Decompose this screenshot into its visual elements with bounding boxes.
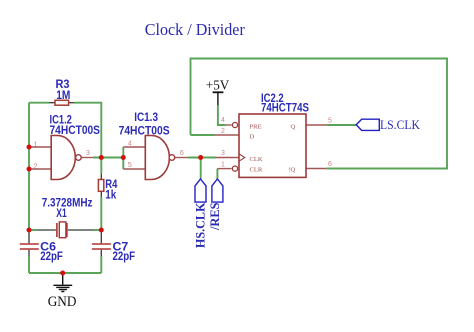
node crystal left junction <box>27 228 32 233</box>
svg-text:3: 3 <box>221 150 225 157</box>
svg-text:CLR: CLR <box>250 166 263 173</box>
wire HS.CLK connector drop <box>200 158 202 180</box>
connector /RES <box>212 179 223 202</box>
flip-flop IC2.2 74HCT74S pins <box>215 125 327 169</box>
svg-text:22pF: 22pF <box>113 250 136 263</box>
svg-text:5: 5 <box>128 162 132 169</box>
wire R3 left net segment <box>29 102 49 104</box>
capacitor C6 <box>20 231 39 273</box>
pin 1 wire IC1.2 <box>29 146 51 148</box>
wire net N$1 left vertical (gate inputs / crystal / C6) <box>28 103 30 230</box>
pin 5 wire Q <box>306 124 327 126</box>
gate IC1.2 74HCT00S body <box>51 136 81 180</box>
wire gate2 input tie vertical <box>122 147 124 169</box>
node ground junction <box>60 271 65 276</box>
svg-text:4: 4 <box>128 140 132 147</box>
wire crystal left segment <box>29 229 38 231</box>
wire /RES connector drop <box>216 169 218 179</box>
svg-text:2: 2 <box>221 128 225 135</box>
svg-text:74HCT00S: 74HCT00S <box>119 124 170 137</box>
wire crystal right segment <box>94 229 102 231</box>
pin 3 wire IC1.2 output <box>81 157 93 159</box>
svg-text:D: D <box>250 134 255 141</box>
svg-text:Q: Q <box>291 124 296 131</box>
svg-text:74HCT00S: 74HCT00S <box>50 124 101 137</box>
node crystal right junction <box>99 228 104 233</box>
wire Q output to LS.CLK connector <box>327 124 357 126</box>
gate IC1.3 74HCT00S body <box>145 136 174 180</box>
svg-text:6: 6 <box>328 161 332 168</box>
resistor R4 <box>98 174 103 197</box>
svg-text:1: 1 <box>221 161 225 168</box>
wire gate1 output to gate2 inputs <box>94 157 124 159</box>
connector LS.CLK <box>356 119 379 130</box>
svg-text:CLK: CLK <box>250 156 263 163</box>
pin 5 wire IC1.3 <box>123 168 145 170</box>
PRE inversion bubble <box>232 122 237 127</box>
wire +5V to PRE pin <box>218 105 226 125</box>
svg-text:HS.CLK: HS.CLK <box>193 202 208 248</box>
pin 6 wire !Q <box>306 168 327 170</box>
svg-text:1k: 1k <box>105 189 116 202</box>
capacitor C7 <box>92 231 111 273</box>
pin 4 wire IC1.3 <box>123 146 145 148</box>
wire bottom ground rail <box>29 272 101 274</box>
svg-text:IC1.3: IC1.3 <box>134 111 158 124</box>
pin 2 wire D <box>215 134 240 136</box>
pin 4 wire PRE <box>226 124 232 126</box>
svg-text:3: 3 <box>86 150 90 157</box>
CLR inversion bubble <box>232 166 237 171</box>
pin 3 wire CLK <box>216 157 239 159</box>
CLK edge triangle <box>239 154 245 161</box>
svg-text:/RES: /RES <box>207 203 222 231</box>
connector HS.CLK <box>195 179 206 202</box>
supply +5V symbol <box>213 92 224 105</box>
svg-text:!Q: !Q <box>288 166 295 173</box>
gate IC1.2 pins <box>29 147 94 169</box>
svg-text:4: 4 <box>221 117 225 124</box>
node gate2 input tie junction <box>121 155 126 160</box>
pin 6 wire IC1.3 output <box>175 157 188 159</box>
svg-text:PRE: PRE <box>250 124 262 131</box>
wire feedback loop !Q to D (big rectangle) <box>191 59 448 169</box>
svg-text:LS.CLK: LS.CLK <box>380 118 420 132</box>
wire R3 right net segment with corner down to right vertical <box>74 103 101 174</box>
svg-text:74HCT74S: 74HCT74S <box>261 102 309 115</box>
gate IC1.3 pins <box>123 147 188 169</box>
svg-text:2: 2 <box>34 163 38 170</box>
flip-flop IC2.2 74HCT74S body <box>232 114 306 177</box>
pin 2 wire IC1.2 <box>29 168 51 170</box>
wire D pin net segment <box>191 134 215 136</box>
svg-text:X1: X1 <box>56 207 67 220</box>
svg-text:22pF: 22pF <box>40 250 63 263</box>
svg-text:GND: GND <box>48 294 77 310</box>
svg-text:5: 5 <box>328 118 332 125</box>
svg-text:1M: 1M <box>56 89 70 102</box>
node gate1 input 2 junction <box>27 167 32 172</box>
wire gate2 output to CLK (net HS.CLK) <box>188 157 216 159</box>
svg-text:6: 6 <box>180 150 184 157</box>
wire R4 bottom to crystal junction <box>100 197 102 230</box>
svg-text:Clock / Divider: Clock / Divider <box>145 20 245 39</box>
ground <box>53 274 72 292</box>
svg-text:7.3728MHz: 7.3728MHz <box>42 196 93 209</box>
node gate1 output / R3-R4 junction <box>99 155 104 160</box>
svg-text:+5V: +5V <box>206 77 230 92</box>
resistor R3 <box>49 100 74 105</box>
node gate1 input 1 junction <box>27 145 32 150</box>
crystal X1 <box>38 222 94 238</box>
node HS.CLK junction <box>198 155 203 160</box>
pin 1 wire CLR <box>217 168 231 170</box>
svg-text:1: 1 <box>34 142 38 149</box>
